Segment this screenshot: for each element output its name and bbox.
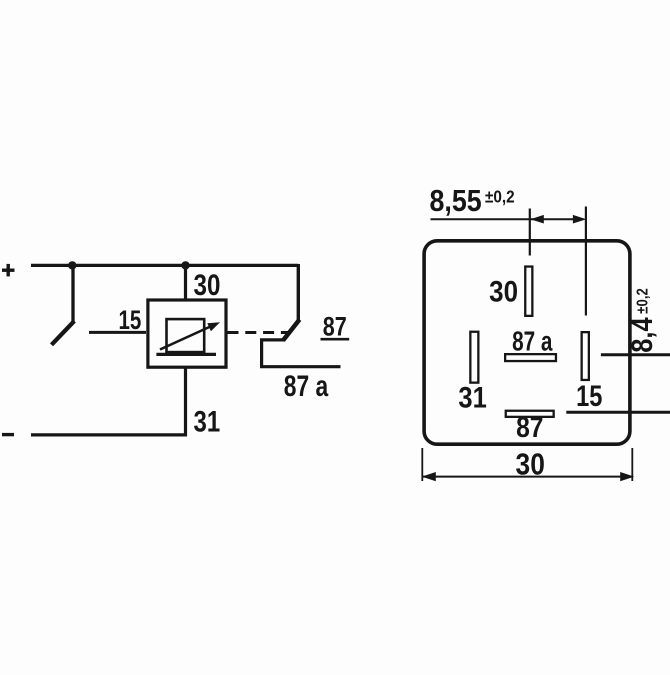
svg-text:31: 31	[458, 381, 486, 414]
svg-text:87: 87	[516, 411, 543, 443]
svg-text:30: 30	[194, 269, 221, 302]
node junction at wire 30	[181, 261, 189, 269]
dim arrow right 30	[620, 472, 634, 481]
pin 87a slot	[505, 354, 556, 361]
svg-text:31: 31	[194, 404, 221, 438]
terminal +	[2, 264, 15, 277]
svg-text:87 a: 87 a	[284, 369, 329, 403]
svg-text:±0,2: ±0,2	[485, 186, 515, 206]
wire 15	[89, 331, 146, 334]
coil adjustment arrow	[160, 322, 220, 349]
svg-text:30: 30	[489, 275, 518, 308]
pin 87 slot	[506, 411, 554, 417]
svg-text:15: 15	[576, 379, 602, 412]
dim arrow left 30	[422, 472, 436, 481]
wire 31	[184, 367, 187, 436]
dim extension left (30 width)	[421, 448, 423, 481]
relay coil box K1	[148, 300, 226, 367]
dim arrow left 8,55	[530, 215, 543, 224]
label 87 underlined (left schematic)	[321, 312, 350, 342]
contact 87a step wire	[262, 340, 341, 367]
switch S1 (ignition switch)	[52, 265, 75, 344]
coil element (rect with bottom bar)	[156, 319, 216, 354]
svg-text:30: 30	[516, 448, 545, 482]
pin 15 slot	[582, 332, 589, 380]
svg-text:87 a: 87 a	[512, 327, 553, 358]
wire bottom bus (-)	[31, 433, 187, 436]
pin 30 slot	[525, 267, 532, 316]
wire row 15 to edge	[601, 353, 670, 356]
dim leader and line 8,55	[431, 218, 584, 220]
extension line pin30 column	[529, 209, 531, 256]
dim extension right (30 width)	[631, 448, 633, 481]
relay base outline	[424, 241, 630, 444]
wire top bus (+ to switch contact)	[31, 264, 298, 267]
wire row 87 to edge	[566, 411, 670, 414]
node junction at switch S1	[68, 261, 76, 269]
wire 30	[184, 265, 187, 300]
svg-text:8,55: 8,55	[430, 185, 482, 219]
extension line pin15 column	[585, 207, 587, 316]
dashed actuation link	[228, 331, 289, 334]
dim arrow right 8,55	[573, 215, 586, 224]
terminal -	[2, 433, 14, 436]
dim label 8,4 ±0,2 rotated	[625, 288, 658, 353]
switch armature (changeover contact)	[283, 264, 300, 341]
pin 31 slot	[470, 332, 478, 383]
svg-text:87: 87	[323, 312, 347, 342]
dim line 30 width	[423, 476, 632, 478]
